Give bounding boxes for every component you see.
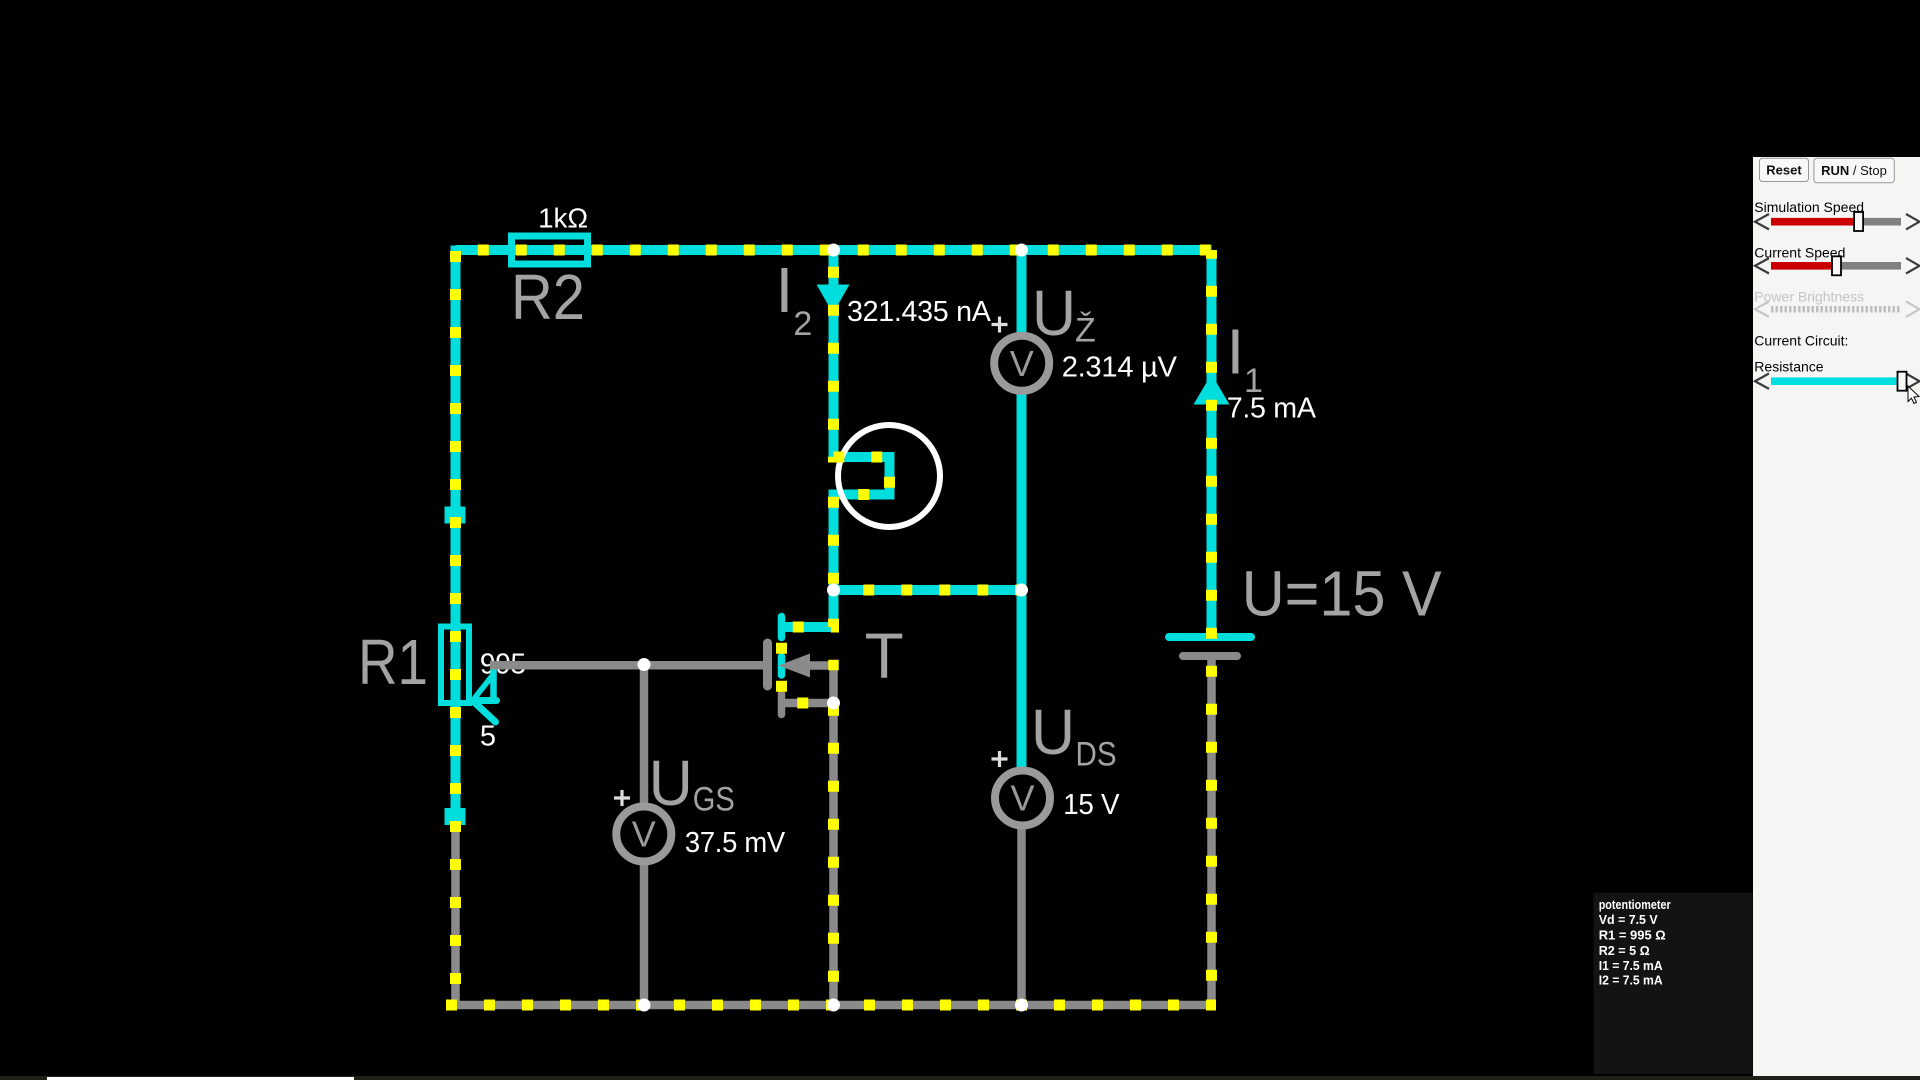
svg-text:Ž: Ž — [1075, 312, 1096, 350]
svg-text:GS: GS — [693, 781, 735, 819]
svg-text:potentiometer: potentiometer — [1599, 897, 1671, 912]
svg-text:1kΩ: 1kΩ — [538, 202, 588, 233]
svg-text:7.5 mA: 7.5 mA — [1227, 393, 1317, 425]
svg-text:Current Circuit:: Current Circuit: — [1754, 333, 1848, 349]
svg-text:321.435 nA: 321.435 nA — [847, 296, 991, 328]
svg-text:Reset: Reset — [1766, 163, 1802, 178]
svg-text:R1: R1 — [358, 626, 428, 698]
svg-text:U=15 V: U=15 V — [1242, 558, 1442, 630]
svg-text:15 V: 15 V — [1063, 789, 1120, 821]
svg-text:U: U — [1032, 277, 1076, 349]
svg-text:I1 = 7.5 mA: I1 = 7.5 mA — [1599, 958, 1664, 973]
svg-text:R1 = 995 Ω: R1 = 995 Ω — [1599, 928, 1666, 943]
svg-text:Vd = 7.5 V: Vd = 7.5 V — [1599, 912, 1658, 927]
svg-text:Simulation Speed: Simulation Speed — [1754, 199, 1864, 215]
svg-text:V: V — [632, 814, 656, 855]
svg-text:DS: DS — [1076, 736, 1117, 774]
svg-text:I: I — [1227, 315, 1245, 387]
svg-text:I: I — [776, 254, 794, 326]
svg-text:V: V — [1010, 778, 1034, 819]
svg-text:RUN / Stop: RUN / Stop — [1821, 163, 1887, 178]
svg-text:37.5 mV: 37.5 mV — [685, 827, 786, 859]
svg-text:Power Brightness: Power Brightness — [1754, 289, 1864, 305]
svg-text:U: U — [649, 747, 693, 819]
svg-text:I2 = 7.5 mA: I2 = 7.5 mA — [1599, 972, 1664, 987]
svg-text:U: U — [1031, 696, 1075, 768]
svg-text:R2 = 5 Ω: R2 = 5 Ω — [1599, 943, 1650, 958]
svg-text:2: 2 — [793, 305, 812, 343]
svg-text:2.314 µV: 2.314 µV — [1062, 352, 1178, 384]
svg-text:V: V — [1010, 343, 1034, 384]
svg-text:Resistance: Resistance — [1754, 359, 1823, 375]
svg-text:T: T — [865, 620, 904, 692]
svg-text:5: 5 — [480, 720, 496, 752]
svg-text:R2: R2 — [511, 261, 585, 333]
